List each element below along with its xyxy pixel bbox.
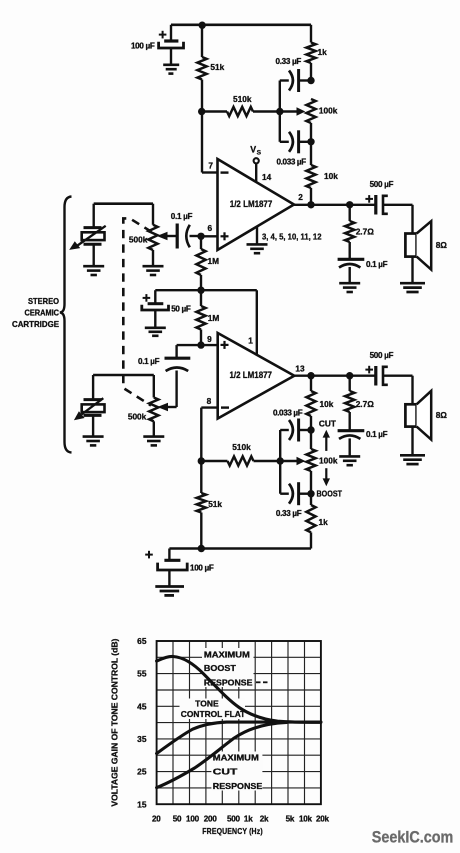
svg-text:0.33 µF: 0.33 µF (276, 57, 302, 66)
pin 8 label (207, 396, 212, 406)
node output ch1 (307, 201, 314, 208)
wiper arrow into 100k pot ch1 (280, 107, 306, 115)
ground below 500k ch1 (143, 266, 164, 275)
svg-text:2: 2 (298, 192, 303, 202)
chart x-axis labels (152, 814, 330, 823)
capacitor C9 0.033uF ch2 (273, 408, 311, 441)
node wiper junction ch2 (277, 457, 284, 464)
wire cartridge2 top (93, 374, 154, 377)
potentiometer R4 100k ch1 (306, 99, 337, 123)
svg-text:MAXIMUM: MAXIMUM (213, 753, 259, 762)
svg-text:0.1 µF: 0.1 µF (138, 357, 160, 366)
cartridge XTAL1 ch1 (69, 204, 106, 250)
svg-text:V: V (250, 145, 256, 155)
wire speaker1 to ground (411, 257, 413, 283)
chart x-axis title (202, 826, 263, 836)
svg-text:10k: 10k (324, 171, 338, 181)
speaker LS2 8ohm (405, 391, 447, 440)
node top-rail junction (199, 22, 206, 29)
ground below C11 (155, 587, 184, 596)
svg-text:2.7Ω: 2.7Ω (356, 227, 375, 237)
svg-text:BOOST: BOOST (317, 490, 343, 499)
wire to pin 9 (201, 344, 218, 346)
svg-text:CUT: CUT (319, 420, 336, 429)
pin 1 label (248, 335, 253, 345)
resistor R14 1k ch2 (306, 494, 328, 549)
wire 510k2 right lead (254, 460, 281, 462)
svg-text:VOLTAGE GAIN OF TONE CONTROL (: VOLTAGE GAIN OF TONE CONTROL (dB) (110, 638, 120, 806)
chart y-axis labels (137, 636, 147, 809)
svg-text:35: 35 (137, 734, 147, 744)
svg-text:45: 45 (137, 701, 147, 711)
svg-text:TONE: TONE (195, 699, 219, 708)
capacitor C13 0.1uF ch2 zobel (338, 430, 388, 456)
wire to speaker ch1 (411, 205, 413, 234)
svg-text:55: 55 (137, 669, 147, 679)
svg-text:STEREO: STEREO (28, 297, 60, 306)
node pin9 junction (197, 341, 204, 348)
capacitor C1 100uF supply bypass (131, 25, 184, 64)
svg-text:6: 6 (207, 223, 212, 233)
ground below C13 (339, 456, 360, 465)
wire inverting input pin 8 (201, 408, 217, 461)
ground below cartridge1 (83, 266, 104, 275)
potentiometer R13 100k ch2 (306, 449, 337, 471)
capacitor C6 0.1uF input ch1 (171, 212, 201, 249)
ground below speaker2 (400, 455, 425, 464)
capacitor C8 0.1uF input ch2 (138, 345, 201, 407)
wiper arrow into 100k pot ch2 (280, 457, 305, 465)
label maximum boost response (204, 650, 268, 687)
resistor R9 1M (196, 290, 219, 345)
resistor R12 10k ch2 (306, 376, 333, 430)
resistor R5 10k ch1 (306, 142, 338, 205)
speaker LS1 8ohm (405, 221, 447, 269)
svg-text:BOOST: BOOST (204, 664, 236, 673)
svg-text:3, 4, 5, 10, 11, 12: 3, 4, 5, 10, 11, 12 (262, 233, 322, 242)
resistor R8 1M (196, 236, 219, 290)
node B (100k/10k/0.033uF) (307, 138, 314, 145)
wire cartridge1 to ground (92, 244, 94, 265)
wire inverting input pin 7 (202, 112, 218, 173)
wire 0.33uF left branch ch1 (279, 81, 281, 112)
capacitor C7 50uF bias (142, 290, 201, 327)
svg-text:20k: 20k (316, 814, 330, 823)
minus input marker U1 (221, 171, 229, 173)
curve maximum cut response (157, 722, 287, 787)
potentiometer R10 500k ch2 (128, 375, 159, 436)
wire 51k lower lead (201, 80, 203, 112)
svg-text:FREQUENCY (Hz): FREQUENCY (Hz) (202, 826, 263, 836)
wire 510k2 left lead (201, 460, 227, 462)
label BOOST with arrow (317, 468, 343, 499)
svg-text:5k: 5k (286, 814, 295, 823)
node BOOST junction (307, 490, 314, 497)
svg-text:200: 200 (204, 814, 218, 823)
node bottom rail junction (198, 545, 205, 552)
svg-text:1/2 LM1877: 1/2 LM1877 (230, 370, 273, 380)
node 2.7ohm tap ch2 (346, 372, 353, 379)
wire pot2 to boost node (310, 430, 312, 494)
svg-text:1k: 1k (319, 517, 329, 527)
svg-text:50 µF: 50 µF (171, 305, 191, 314)
wiper arrow 500k ch2 (157, 403, 176, 412)
svg-text:14: 14 (262, 172, 272, 182)
svg-text:0.1 µF: 0.1 µF (366, 430, 388, 439)
label STEREO CERAMIC CARTRIDGE (12, 297, 60, 329)
svg-text:51k: 51k (208, 499, 222, 509)
svg-text:500: 500 (227, 814, 241, 823)
resistor R16 2.7ohm ch2 (345, 376, 374, 431)
svg-text:8Ω: 8Ω (436, 240, 448, 250)
svg-text:100: 100 (186, 814, 200, 823)
chart label backgrounds (180, 648, 263, 791)
Vs supply terminal (250, 145, 271, 182)
svg-text:510k: 510k (233, 94, 252, 104)
curve tone control flat (157, 722, 321, 753)
chart grid (157, 641, 321, 804)
label tone control flat (181, 699, 246, 719)
wire 1k bottom lead (310, 63, 312, 81)
pin 7 label (208, 161, 213, 171)
wire speaker2 to ground (411, 427, 413, 455)
capacitor C10 0.33uF ch2 (276, 482, 311, 518)
svg-text:RESPONSE: RESPONSE (204, 678, 253, 687)
wire 0.033uF left branch ch2 (279, 430, 281, 461)
wire U1 output (294, 204, 376, 206)
svg-text:100 µF: 100 µF (190, 564, 214, 573)
ground below 50uF (145, 328, 166, 336)
wiper arrow 500k ch1 (157, 232, 177, 241)
capacitor C11 100uF lower (145, 549, 214, 587)
node 2.7ohm tap ch1 (346, 201, 353, 208)
wire top supply rail (171, 23, 311, 26)
svg-text:100k: 100k (319, 456, 338, 466)
wire 0.033uF left branch ch1 (279, 112, 281, 142)
wire to speaker ch2 (411, 376, 413, 405)
svg-text:50: 50 (173, 814, 182, 823)
node CUT junction (307, 426, 314, 433)
wire 0.33uF left branch ch2 (279, 461, 281, 494)
capacitor C2 0.33uF (276, 57, 312, 92)
svg-text:RESPONSE: RESPONSE (213, 782, 263, 791)
pin 9 label (207, 334, 212, 344)
svg-text:0.033 µF: 0.033 µF (273, 408, 303, 417)
svg-text:500 µF: 500 µF (370, 180, 394, 189)
capacitor C4 500uF output ch1 (365, 180, 412, 214)
cartridge XTAL2 ch2 (74, 375, 105, 420)
plus input marker U2 (221, 341, 229, 349)
svg-text:20: 20 (152, 814, 161, 823)
ground below C1 (163, 65, 179, 74)
capacitor C3 0.033uF (277, 130, 312, 166)
node pin6 junction (197, 233, 204, 240)
svg-text:25: 25 (137, 767, 147, 777)
resistor R2 1k (306, 43, 327, 64)
dashed gang line 500k pots (123, 218, 151, 405)
wire bias to pin 1 (201, 290, 257, 355)
svg-text:500k: 500k (129, 235, 148, 245)
node pin8 junction (198, 457, 205, 464)
resistor R3 510k (227, 94, 253, 116)
svg-text:8: 8 (207, 396, 212, 406)
svg-text:51k: 51k (210, 62, 224, 72)
wire 51k upper lead (201, 25, 203, 57)
svg-text:8Ω: 8Ω (436, 410, 448, 420)
svg-text:SeekIC.com: SeekIC.com (372, 829, 454, 847)
label maximum cut response (213, 753, 263, 791)
node output ch2 (307, 372, 314, 379)
svg-text:CONTROL FLAT: CONTROL FLAT (181, 710, 246, 719)
svg-text:0.1 µF: 0.1 µF (171, 212, 193, 221)
svg-text:2k: 2k (260, 814, 269, 823)
node wiper junction ch1 (276, 108, 283, 115)
op-amp U2 1/2 LM1877 (218, 333, 295, 419)
svg-text:1M: 1M (208, 256, 220, 266)
svg-text:1/2 LM1877: 1/2 LM1877 (230, 199, 273, 209)
chart y-axis title (110, 638, 120, 806)
svg-text:500k: 500k (128, 411, 147, 421)
svg-text:100k: 100k (319, 106, 338, 116)
curve maximum boost response (157, 656, 321, 722)
resistor R1 51k (197, 57, 224, 80)
svg-text:500 µF: 500 µF (370, 351, 394, 360)
svg-text:1k: 1k (244, 814, 253, 823)
svg-text:2.7Ω: 2.7Ω (356, 399, 375, 409)
svg-text:15: 15 (137, 799, 147, 809)
wire cartridge1 top (94, 202, 153, 205)
resistor R6 2.7ohm ch1 (345, 205, 374, 259)
pin 2 label (298, 192, 303, 202)
capacitor C5 0.1uF ch1 zobel (338, 259, 388, 283)
minus input marker U2 (221, 406, 229, 408)
svg-text:CUT: CUT (213, 767, 238, 776)
node A (1k/100k/0.33uF) (307, 77, 314, 84)
svg-text:510k: 510k (232, 442, 251, 452)
ground below cartridge2 (83, 437, 104, 446)
capacitor C12 500uF output ch2 (365, 351, 412, 385)
wire 1k top lead (310, 25, 312, 43)
wire to pin 6 (201, 235, 218, 237)
svg-text:10k: 10k (299, 814, 313, 823)
svg-text:MAXIMUM: MAXIMUM (204, 650, 250, 659)
pin 6 label (207, 223, 212, 233)
svg-text:9: 9 (207, 334, 212, 344)
svg-text:S: S (257, 150, 262, 157)
pin 13 label (295, 364, 305, 374)
ground below C5 (339, 283, 360, 292)
resistor R15 51k ch2 (197, 461, 223, 549)
svg-text:0.1 µF: 0.1 µF (366, 260, 388, 269)
svg-text:65: 65 (137, 636, 147, 646)
svg-text:CARTRIDGE: CARTRIDGE (12, 320, 60, 329)
wire bottom rail (169, 547, 311, 550)
ground below speaker1 (400, 283, 425, 292)
wire 510k right lead (253, 110, 280, 112)
potentiometer R7 500k ch1 (129, 204, 158, 266)
wire cartridge2 to ground (92, 415, 94, 436)
svg-text:0.033 µF: 0.033 µF (277, 157, 307, 166)
svg-text:100 µF: 100 µF (131, 41, 155, 50)
svg-text:0.33 µF: 0.33 µF (276, 509, 302, 518)
svg-text:7: 7 (208, 161, 213, 171)
node bias midpoint (197, 287, 204, 294)
svg-text:1: 1 (248, 335, 253, 345)
svg-text:13: 13 (295, 364, 305, 374)
svg-text:10k: 10k (320, 399, 334, 409)
ground below 500k ch2 (143, 437, 164, 446)
wire U2 output (294, 375, 376, 377)
resistor R11 510k ch2 (228, 442, 254, 465)
ground pins 3,4,5,10,11,12 (247, 227, 322, 254)
logo SeekIC.com (372, 829, 454, 847)
label CUT with arrow (319, 420, 336, 451)
svg-text:1M: 1M (208, 313, 220, 323)
brace stereo ceramic cartridge (60, 197, 72, 453)
plus input marker U1 (221, 232, 229, 240)
op-amp U1 1/2 LM1877 (218, 159, 295, 250)
wire 510k left lead (202, 110, 227, 112)
wire pot1 lower lead (310, 123, 312, 142)
svg-text:1k: 1k (318, 47, 328, 57)
svg-text:CERAMIC: CERAMIC (25, 309, 60, 318)
node pin7 junction (198, 108, 205, 115)
